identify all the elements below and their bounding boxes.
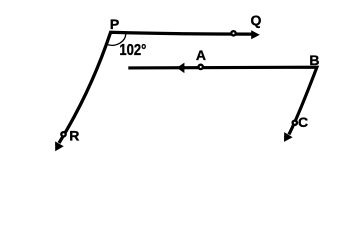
open dot C: [293, 121, 297, 125]
svg-text:B: B: [309, 52, 319, 68]
arrowhead C: [284, 132, 293, 142]
arrowhead Q: [251, 30, 260, 39]
arrowhead R: [55, 141, 64, 151]
svg-text:Q: Q: [251, 12, 262, 28]
svg-text:R: R: [69, 128, 79, 144]
angle arc at P: [108, 34, 126, 45]
svg-text:P: P: [110, 16, 119, 32]
svg-text:C: C: [298, 114, 308, 130]
svg-text:102°: 102°: [119, 42, 146, 59]
open dot A: [199, 65, 203, 69]
open dot R: [61, 132, 65, 136]
svg-text:A: A: [196, 47, 206, 63]
open dot on ray PQ: [231, 31, 235, 35]
polyline A-B-C (bottom line with corner at B): [128, 67, 317, 134]
arrowhead on line AB (left): [177, 63, 185, 74]
polyline Q-P-R (top ray with corner at P): [59, 32, 253, 143]
